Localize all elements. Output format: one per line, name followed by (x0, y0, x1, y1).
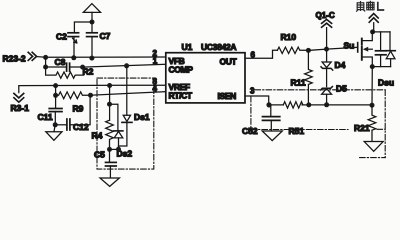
op-amp U1 UC3842A IC box (166, 53, 245, 103)
resistor R10 (277, 47, 308, 53)
svg-text:C52: C52 (242, 126, 258, 136)
junction dot R10/R11 (306, 48, 311, 53)
resistor R2 (parallel detour) (46, 67, 84, 78)
diode Ds1 (119, 66, 133, 150)
svg-text:R10: R10 (281, 32, 297, 42)
resistor R9 (56, 92, 91, 99)
junction dot COMP right (80, 65, 85, 70)
wire VREF line (pin 8) (19, 85, 166, 92)
capacitor C5 (106, 149, 117, 177)
boundary dash-dot line (bottom horizontal) (251, 128, 385, 130)
capacitor C7 (87, 22, 98, 58)
wire C2 branch top (74, 22, 92, 32)
svg-text:R3-1: R3-1 (11, 103, 30, 113)
svg-text:OUT: OUT (220, 57, 238, 67)
boundary dash-dot line (pin3 vertical) (250, 97, 252, 130)
svg-text:R51: R51 (289, 126, 305, 136)
svg-text:C7: C7 (100, 31, 111, 41)
svg-text:ISEN: ISEN (218, 91, 237, 101)
svg-text:R9: R9 (73, 104, 84, 114)
junction dot R4 hook (107, 102, 112, 107)
wire VFB to COMP drop (45, 57, 47, 67)
capacitor C52 (263, 105, 280, 131)
svg-text:R23-2: R23-2 (3, 54, 26, 64)
capacitor C11 (49, 95, 62, 125)
junction dot D5/ISEN (324, 102, 329, 107)
wire COMP line (pin 1) (83, 64, 166, 67)
junction dot C7 on VFB line (89, 56, 94, 61)
boundary dash-dot line (bottom right horizontal) (360, 157, 386, 159)
junction dot R9 left (53, 93, 58, 98)
svg-text:RT/CT: RT/CT (169, 91, 193, 101)
wire source bottom rail (372, 66, 390, 68)
svg-text:Dsu: Dsu (378, 78, 394, 88)
svg-text:Su: Su (344, 41, 355, 51)
wire gate line (308, 47, 357, 50)
wire source to ISEN (371, 67, 373, 106)
junction dot C2 on VFB line (71, 55, 76, 60)
capacitor C8 (46, 63, 83, 71)
svg-text:UC3842A: UC3842A (201, 42, 236, 52)
wire ISEN line (269, 104, 372, 106)
ground (under R21) (364, 142, 383, 152)
svg-text:Q1-C: Q1-C (316, 11, 335, 20)
capacitor C2 (68, 33, 79, 43)
wire hook to Ds2 (110, 104, 118, 130)
ground (left, under C11) (46, 125, 62, 141)
transistor Su (MOSFET) (358, 32, 373, 67)
connector Q1-C (double chevron up) (322, 19, 332, 27)
svg-text:C8: C8 (55, 57, 66, 67)
dashed timing network box (97, 78, 154, 169)
junction dot COMP/Ds1 (124, 63, 129, 68)
wire Q1-C stem (326, 28, 328, 49)
junction dot gate/D4 rail (324, 47, 329, 52)
zener diode D4 (321, 49, 333, 87)
resistor R21 (368, 105, 376, 141)
junction dot drain node (370, 29, 375, 34)
svg-text:C5: C5 (94, 150, 105, 160)
svg-text:C2: C2 (56, 32, 67, 42)
svg-text:R21: R21 (354, 123, 370, 133)
svg-text:C11: C11 (38, 112, 53, 122)
power symbol (VCC triangle top-left) (83, 4, 100, 22)
svg-text:4: 4 (153, 84, 158, 93)
junction dot R9 right / RT-CT (88, 93, 93, 98)
svg-text:Ds1: Ds1 (134, 112, 150, 122)
connector inductor L (double chevron up) (369, 14, 378, 23)
capacitor snubber (376, 32, 387, 67)
svg-text:U1: U1 (182, 42, 193, 52)
junction dot ISEN/C52 (266, 102, 271, 107)
connector R23-2 (double chevron) (28, 52, 36, 60)
zener diode D5 (321, 87, 333, 105)
boundary dash-dot line (right vertical) (384, 90, 386, 158)
diode Ds2 (114, 131, 123, 149)
resistor R4 (106, 120, 114, 149)
junction dot R11/ISEN (306, 102, 311, 107)
wire C2 bottom lead (73, 37, 75, 58)
wire VFB line (pin 2) (37, 56, 166, 59)
svg-text:D5: D5 (336, 84, 347, 94)
junction dot ISEN right (370, 103, 375, 108)
wire OUT pin 6 (245, 50, 277, 58)
connector R3-1 (double chevron down) (14, 93, 24, 102)
wire ISEN pin 3 (245, 96, 269, 105)
svg-text:COMP: COMP (169, 65, 194, 75)
svg-text:R11: R11 (291, 78, 306, 88)
ground (bottom center) (100, 178, 119, 186)
junction dot VREF/C11 (53, 83, 58, 88)
junction dot source node (370, 64, 375, 69)
junction dot VFB left (43, 55, 48, 60)
wire L rail stem (373, 23, 375, 32)
wire drain top rail (373, 31, 390, 33)
wire RT/CT line (pin 4) (91, 92, 166, 96)
resistor R51 (283, 102, 303, 108)
svg-text:C12: C12 (73, 122, 89, 132)
boundary dash-dot line (mid horizontal through D5) (255, 89, 385, 91)
resistor R11 (305, 50, 313, 105)
svg-text:R4: R4 (92, 131, 103, 141)
junction dot COMP left (43, 65, 48, 70)
node junction C2/C7 (90, 20, 95, 25)
node bottom of timing network (107, 147, 121, 152)
diode Dsu (386, 32, 395, 67)
svg-text:1: 1 (153, 57, 158, 66)
capacitor C12 (55, 95, 90, 130)
junction dot VREF/R4 (107, 83, 112, 88)
junction dot C11/C12 (53, 122, 58, 127)
wire VREF to R4 (109, 86, 111, 121)
svg-text:3: 3 (250, 87, 255, 96)
wire VREF to R9 node (55, 86, 57, 96)
svg-text:D4: D4 (335, 60, 346, 70)
ground (under C52) (262, 131, 282, 141)
label 电感L (inductor rail, drawn as glyph blocks) (357, 1, 384, 11)
